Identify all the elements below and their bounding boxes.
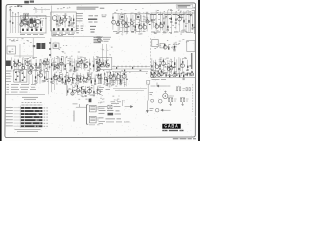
switch row bar 2 — [21, 110, 43, 112]
capacitor C45 — [79, 61, 81, 62]
wire links supply — [104, 75, 123, 83]
resistor R71 — [35, 76, 36, 78]
capacitor C69 — [64, 84, 66, 85]
capacitor C76 — [94, 84, 96, 85]
transistor Q55 — [151, 74, 154, 77]
wire bundle driver — [165, 44, 176, 49]
labels — [102, 47, 113, 57]
switch row bar gap c 1 — [38, 107, 39, 108]
dark knot transistor — [97, 67, 100, 70]
title label box — [176, 5, 192, 9]
fuse block dark — [108, 113, 114, 116]
transistor Q35 — [169, 66, 172, 69]
switch row marks 2 — [44, 110, 48, 112]
resistor R75 — [54, 74, 55, 76]
transistor Q25 — [60, 62, 63, 65]
resistor R93 — [89, 88, 90, 90]
module box right — [152, 40, 158, 47]
left column resistor 2 — [49, 48, 50, 50]
capacitor C31 — [24, 60, 26, 61]
dark module block — [6, 61, 11, 67]
value labels IF strip — [57, 14, 75, 27]
tick wire — [156, 83, 158, 86]
resistor R112 — [187, 73, 188, 75]
transistor Q59 — [173, 73, 176, 76]
switch row bar gap b 4 — [24, 116, 25, 117]
resistor R109 — [174, 72, 175, 74]
IF transformer box 2 — [136, 15, 140, 19]
resistor R15 — [126, 22, 127, 24]
resistor R2 — [24, 18, 25, 21]
switch row bar gap 1 — [31, 107, 32, 108]
gang labels — [9, 49, 14, 53]
transistor Q44 — [98, 75, 101, 78]
resistor R35 — [22, 64, 23, 66]
resistor R17 — [135, 26, 136, 29]
wire links IF strip — [59, 18, 71, 25]
resistor R11 — [73, 19, 74, 21]
transistor Q28 — [84, 65, 87, 68]
resistor R40 — [43, 60, 44, 62]
dark component — [33, 45, 35, 47]
value labels IF right — [114, 12, 148, 34]
SABA logo letter B — [172, 124, 174, 127]
switch row bar gap b 7 — [24, 126, 25, 127]
switch column box B contacts — [22, 73, 24, 75]
transistor Q7 — [117, 23, 120, 26]
resistor pair A labels — [168, 97, 177, 101]
switch row wire 3 — [14, 113, 21, 115]
transistor Q47 — [81, 89, 85, 93]
tuner dark row resistor 4 — [36, 29, 38, 31]
wire links decoder — [151, 13, 187, 32]
divider wire long — [6, 93, 46, 95]
resistor R83 — [83, 77, 84, 79]
labels — [98, 98, 104, 103]
capacitor C81 — [87, 87, 89, 88]
resistor R103 — [151, 72, 152, 75]
switch arrow row 3 — [7, 89, 37, 91]
bus wires decoder — [151, 12, 196, 14]
resistor R50 — [81, 59, 82, 61]
resistor R36 — [27, 61, 28, 63]
resistor R72 — [39, 71, 40, 73]
model text II — [180, 130, 184, 132]
mains text row 3 — [99, 112, 105, 114]
transistor Q57 — [157, 73, 160, 76]
resistor R44 — [57, 63, 58, 65]
tuning gang box — [7, 46, 16, 54]
capacitor C39 — [54, 69, 56, 70]
capacitor C23 — [178, 15, 180, 16]
bus ticks — [114, 66, 146, 68]
left column resistor 3 — [49, 54, 50, 56]
wire stub — [121, 100, 123, 106]
switch row bar gap b 2 — [24, 110, 25, 111]
table scale ruler — [21, 104, 43, 106]
capacitor C25 — [185, 26, 187, 27]
resistor R53 — [93, 64, 94, 67]
edge box — [147, 14, 150, 22]
transistor Q5 — [63, 18, 66, 21]
resistor on bus — [116, 67, 117, 69]
bus wires IF right — [113, 12, 150, 14]
resistor R89 — [72, 89, 73, 92]
wire links tuner — [24, 19, 41, 27]
resistor R65 — [167, 66, 168, 68]
switch row bar gap c 5 — [38, 120, 39, 121]
resistor R45 — [61, 58, 62, 60]
switch row label 3 — [6, 113, 13, 115]
value labels switch area — [34, 69, 49, 83]
resistor R10 — [69, 21, 70, 23]
input marks — [97, 37, 112, 41]
capacitor C17 — [153, 19, 155, 20]
wire links output — [152, 60, 173, 72]
capacitor C50 — [107, 65, 109, 66]
wire bundle power amp lower — [68, 85, 98, 95]
module box right 2 — [160, 43, 164, 48]
wire links switch area — [35, 71, 51, 79]
model text Stereo — [169, 130, 178, 132]
capacitor C48 — [97, 70, 99, 71]
transistor Q31 — [163, 45, 167, 49]
wire — [14, 55, 33, 57]
labels — [59, 45, 68, 52]
right tall box — [187, 41, 195, 52]
resistor R22 — [156, 23, 157, 25]
switch row bar 4 — [21, 116, 43, 118]
switch row bar 6 — [21, 122, 43, 124]
capacitor C43 — [72, 65, 74, 66]
switch row wire 7 — [14, 125, 21, 127]
resistor pair upper B — [186, 88, 187, 91]
tone module box — [97, 58, 112, 70]
wire bundle decoder — [152, 10, 193, 34]
capacitor C73 — [73, 78, 75, 79]
transformer top mark — [89, 99, 92, 103]
headphone text — [150, 109, 154, 111]
wire — [32, 38, 34, 58]
transistor Q13 — [146, 20, 149, 23]
table header line 1 — [22, 96, 38, 98]
switch column box A inner wire — [16, 71, 18, 82]
resistor R73 — [44, 76, 45, 78]
capacitor C89 — [126, 79, 128, 80]
resistor R30 — [188, 20, 189, 23]
long dash wires — [113, 89, 147, 91]
capacitor C53 — [159, 68, 161, 69]
wire links power amp — [55, 75, 103, 83]
IF dark row resistor 3 — [62, 28, 64, 30]
notes figures row — [89, 21, 98, 23]
resistor R34 — [18, 60, 19, 62]
switch row marks 3 — [44, 113, 48, 115]
table figures row — [22, 101, 42, 103]
capacitor C33 — [32, 68, 34, 69]
capacitor C9 — [68, 25, 70, 26]
capacitor C59 — [189, 65, 191, 66]
resistor R110 — [179, 75, 180, 78]
transistor Q17 — [14, 64, 17, 67]
capacitor C15 — [134, 30, 136, 31]
resistor R98 — [110, 72, 111, 74]
resistor R5 — [35, 24, 36, 26]
capacitor C72 — [72, 82, 74, 83]
wire with arrow down — [146, 101, 148, 113]
resistor R87 — [98, 74, 99, 76]
capacitor C83 — [93, 95, 95, 96]
mains top marks — [111, 102, 122, 104]
resistor R84 — [87, 74, 88, 76]
switch row bar gap 2 — [34, 110, 35, 111]
transistor Q29 — [98, 62, 101, 65]
table footer text — [15, 129, 41, 131]
IF dark row resistor 4 — [67, 28, 69, 30]
watermark text — [173, 138, 196, 140]
IF dark row resistor 5 — [71, 28, 73, 30]
resistor R68 — [178, 68, 179, 70]
wire links right tail — [153, 72, 191, 75]
value labels AM section — [13, 57, 47, 72]
resistor R14 — [122, 17, 123, 19]
resistor R16 — [130, 19, 131, 21]
switch row label 2 — [6, 110, 13, 112]
capacitor C26 — [190, 14, 192, 17]
tuner below-box text — [20, 33, 44, 35]
resistor R21 — [151, 19, 152, 21]
capacitor C3 — [27, 25, 29, 26]
capacitor C24 — [181, 17, 183, 18]
decoder text row — [151, 31, 190, 33]
resistor on antenna wire 2 — [12, 22, 13, 24]
transistor Q37 — [39, 74, 42, 77]
labels — [154, 45, 160, 49]
value labels driver — [164, 44, 177, 49]
resistor R66 — [171, 65, 172, 67]
resistor R97 — [107, 79, 108, 82]
scan edge strip left — [0, 0, 2, 141]
resistor R31 — [192, 24, 193, 27]
resistor R90 — [77, 85, 78, 87]
resistor on antenna wire — [10, 21, 11, 23]
junction box — [147, 81, 150, 85]
IF input transistor — [52, 16, 57, 21]
resistor R37 — [30, 65, 31, 67]
module box core — [54, 44, 56, 47]
antenna symbol — [9, 9, 11, 16]
capacitor C56 — [174, 66, 176, 67]
switch row bar gap c 6 — [40, 123, 41, 124]
upper pair labels — [176, 87, 185, 90]
wire links power amp lower — [68, 86, 102, 95]
resistor R19 — [143, 23, 144, 25]
switch row wire 1 — [14, 107, 21, 109]
coil box L1 — [24, 13, 29, 19]
resistor R20 — [146, 19, 147, 21]
capacitor C5 — [34, 22, 36, 23]
capacitor C21 — [170, 22, 172, 23]
capacitor C1 — [23, 20, 25, 21]
small jack circle — [151, 99, 154, 102]
AM labels — [9, 39, 32, 44]
value labels preamp — [52, 56, 98, 73]
notes mark XY — [102, 15, 107, 17]
IF module box outline — [51, 12, 76, 31]
transistor Q39 — [58, 78, 62, 82]
transistor Q4 — [59, 20, 63, 24]
transistor Q27 — [80, 61, 83, 64]
IF labels — [57, 8, 70, 9]
capacitor C11 — [72, 23, 74, 24]
switch row bar gap b 1 — [24, 107, 25, 108]
divider dashed wire — [149, 38, 151, 74]
resistor R24 — [163, 22, 164, 25]
capacitor C18 — [165, 16, 167, 17]
switch row bar gap c 4 — [40, 116, 41, 117]
tuner dark row resistor 5 — [40, 29, 42, 31]
transistor Q6 — [112, 20, 116, 24]
capacitor C35 — [37, 67, 39, 68]
resistor R108 — [169, 75, 170, 78]
resistor R4 — [31, 18, 32, 20]
scan edge strip right — [198, 0, 200, 141]
resistor R107 — [165, 74, 166, 76]
transistor Q49 — [97, 90, 101, 94]
schematic border frame — [5, 3, 196, 138]
capacitor C42 — [64, 68, 66, 69]
capacitor C32 — [29, 61, 31, 62]
wire — [48, 72, 50, 94]
switch arrow row 1 — [7, 84, 37, 86]
resistor R81 — [76, 76, 77, 78]
switch row bar 5 — [21, 119, 43, 121]
wire bundle preamp — [52, 56, 100, 73]
capacitor C58 — [187, 70, 189, 71]
notes lower right dark rows — [90, 26, 96, 32]
mark A — [193, 7, 195, 9]
capacitor C65 — [53, 76, 55, 77]
resistor R92 — [85, 91, 86, 94]
wire — [168, 95, 174, 97]
transistor Q34 — [167, 67, 170, 70]
resistor R54 — [97, 66, 98, 68]
transistor Q12 — [143, 25, 147, 29]
resistor R78 — [65, 80, 66, 83]
capacitor C47 — [86, 62, 88, 63]
resistor R43 — [54, 65, 55, 68]
resistor R59 — [168, 47, 169, 50]
SABA logo letter A1 — [168, 124, 170, 127]
notes table col 2 circles — [89, 15, 99, 17]
capacitor C55 — [173, 67, 175, 68]
resistor R49 — [77, 62, 78, 64]
tuner dark row resistor 1 — [22, 29, 24, 31]
primary wire — [76, 105, 86, 107]
capacitor C19 — [167, 30, 169, 31]
wire bundle supply — [105, 71, 127, 87]
IF text row — [113, 30, 146, 32]
switch row bar 7 — [21, 125, 43, 127]
IF right labels — [116, 9, 143, 11]
resistor R7 — [56, 20, 57, 22]
capacitor C20 — [169, 18, 171, 19]
transistor Q19 — [22, 66, 25, 69]
decoder dark label row — [151, 14, 193, 16]
resistor R28 — [179, 16, 180, 18]
labels — [78, 96, 91, 99]
notes lower pair symbols — [76, 26, 84, 33]
switch row bar gap 5 — [36, 120, 37, 121]
IF transformer core mark — [121, 16, 123, 18]
resistor R38 — [36, 63, 37, 66]
table left rail — [19, 106, 21, 129]
wire links tone — [99, 65, 106, 67]
wire pair — [29, 75, 33, 85]
capacitor C64 — [50, 82, 52, 83]
resistor R13 — [118, 20, 119, 22]
capacitor C38 — [49, 67, 51, 68]
resistor R56 — [103, 62, 104, 65]
resistor R82 — [80, 77, 81, 80]
transistor Q8 — [121, 20, 125, 24]
labels — [102, 96, 125, 101]
resistor R105 — [158, 70, 159, 72]
capacitor C12 — [119, 18, 121, 19]
transistor Q46 — [76, 89, 80, 93]
switch row marks 5 — [44, 119, 48, 121]
winding hatch upper — [90, 107, 95, 110]
resistor R62 — [155, 63, 156, 65]
resistor R33 — [14, 62, 15, 64]
capacitor C78 — [78, 90, 80, 91]
capacitor C88 — [120, 84, 122, 85]
resistor R29 — [183, 20, 184, 23]
switch arrow row 2 — [7, 86, 36, 88]
tuner module box outline — [20, 16, 46, 34]
switch column box A — [14, 70, 20, 83]
marks below transformer — [89, 124, 100, 126]
resistor on bus 3 — [132, 67, 133, 69]
wire links preamp — [52, 58, 86, 68]
resistor R100 — [117, 73, 118, 75]
wire divider — [151, 77, 196, 79]
capacitor C52 — [151, 69, 153, 70]
capacitor C90 — [163, 73, 165, 74]
winding hatch lower — [90, 118, 95, 121]
capacitor C29 — [13, 61, 15, 62]
wire long vertical — [66, 70, 68, 96]
resistor R58 — [164, 44, 165, 47]
resistor R23 — [160, 22, 161, 25]
mixer module box dark 2 — [34, 19, 37, 23]
jack circle 2 — [158, 99, 162, 103]
switch row marks 4 — [44, 116, 48, 118]
mains text row 4 — [99, 118, 122, 119]
capacitor C60 — [34, 80, 36, 81]
value labels tuner — [21, 17, 43, 28]
wire links IF right — [117, 16, 149, 27]
switch row bar gap c 7 — [38, 126, 39, 127]
resistor R61 — [151, 65, 152, 67]
resistor R95 — [97, 89, 98, 91]
bus wire — [33, 10, 50, 13]
resistor pair B labels — [180, 97, 189, 101]
transistor Q42 — [83, 78, 87, 82]
value labels output — [152, 58, 189, 74]
transistor Q36 — [181, 64, 185, 68]
resistor R52 — [89, 63, 90, 66]
